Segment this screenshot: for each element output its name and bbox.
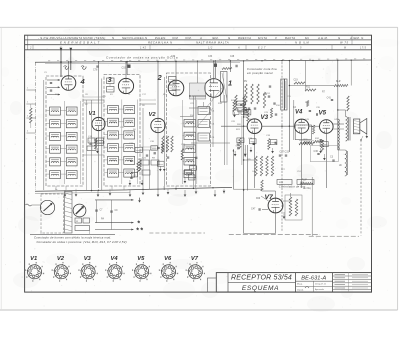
svg-text:V3: V3 [261, 114, 269, 121]
svg-text:C27 C32: C27 C32 [280, 151, 290, 154]
svg-text:C33: C33 [208, 56, 213, 58]
svg-text:A.E.M.: A.E.M. [317, 36, 328, 40]
svg-text:1/2: 1/2 [208, 47, 213, 50]
svg-text:ESQUEMA: ESQUEMA [242, 285, 279, 292]
svg-text:Maj.p.: Maj.p. [297, 284, 303, 286]
svg-text:de Orq: de Orq [303, 187, 311, 190]
svg-text:5: 5 [300, 47, 302, 50]
svg-text:C41: C41 [327, 98, 332, 100]
svg-text:...: ... [178, 47, 181, 50]
svg-text:V2: V2 [149, 112, 157, 118]
svg-text:V4: V4 [295, 110, 303, 116]
svg-text:Aprovado: Aprovado [315, 288, 325, 291]
svg-text:*: * [140, 228, 143, 235]
svg-text:C36: C36 [314, 150, 319, 153]
svg-text:Depod.: Depod. [297, 289, 304, 291]
svg-text:V5: V5 [137, 256, 145, 262]
svg-text:RECEPTOR 53/54: RECEPTOR 53/54 [231, 275, 292, 282]
svg-text:BE-631-A: BE-631-A [301, 275, 326, 281]
svg-text:C47: C47 [251, 208, 256, 211]
svg-text:2: 2 [157, 73, 163, 82]
svg-text:V1: V1 [89, 111, 96, 117]
svg-text:RRECVA: RRECVA [238, 36, 251, 40]
svg-text:Desig.17.11: Desig.17.11 [315, 283, 327, 285]
svg-text:4: 4 [80, 77, 86, 86]
svg-text:NEOVILAIREA.N: NEOVILAIREA.N [122, 36, 148, 40]
svg-text:R29: R29 [256, 198, 261, 200]
svg-text:*: * [136, 228, 139, 235]
svg-text:Comutador de bornes com débito: Comutador de bornes com débito la muda t… [34, 235, 111, 239]
svg-text:K-9: K-9 [336, 79, 341, 83]
svg-text:Comutador de ondas t.posicione: Comutador de ondas t.posicione: (V1a, M1… [37, 240, 127, 244]
svg-text:RECAMILHA N: RECAMILHA N [148, 41, 173, 45]
svg-text:V7: V7 [265, 194, 275, 201]
svg-text:V4: V4 [111, 256, 119, 262]
svg-text:17/3: 17/3 [360, 47, 367, 50]
svg-text:RV: RV [244, 81, 248, 83]
svg-text:C30: C30 [171, 56, 176, 58]
svg-text:BAKTA: BAKTA [285, 36, 295, 40]
svg-text:A IEM. G: A IEM. G [349, 36, 364, 40]
svg-text:em posição macal: em posição macal [247, 71, 273, 75]
svg-text:.: . [326, 47, 327, 50]
svg-text:V1: V1 [30, 256, 37, 262]
svg-text:N B ILM: N B ILM [295, 41, 309, 45]
svg-text:W 75: W 75 [340, 41, 349, 45]
svg-text:*: * [137, 221, 140, 228]
svg-text:C78: C78 [93, 69, 98, 72]
svg-text:ICM: ICM [172, 36, 178, 40]
svg-text:IEM.: IEM. [212, 36, 219, 40]
svg-text:PALEN.: PALEN. [155, 36, 167, 40]
svg-text:C19: C19 [122, 67, 127, 70]
svg-text:ML: ML [305, 36, 310, 40]
svg-text:MILTA: MILTA [258, 36, 267, 40]
svg-text:SONDI (TESN): SONDI (TESN) [83, 36, 106, 40]
svg-text:V3: V3 [84, 256, 92, 262]
svg-text:1: 1 [228, 79, 232, 88]
svg-text:V5: V5 [319, 110, 327, 117]
svg-text:C48: C48 [230, 56, 235, 58]
svg-text:C19: C19 [294, 80, 299, 82]
svg-text:A: A [237, 47, 240, 50]
